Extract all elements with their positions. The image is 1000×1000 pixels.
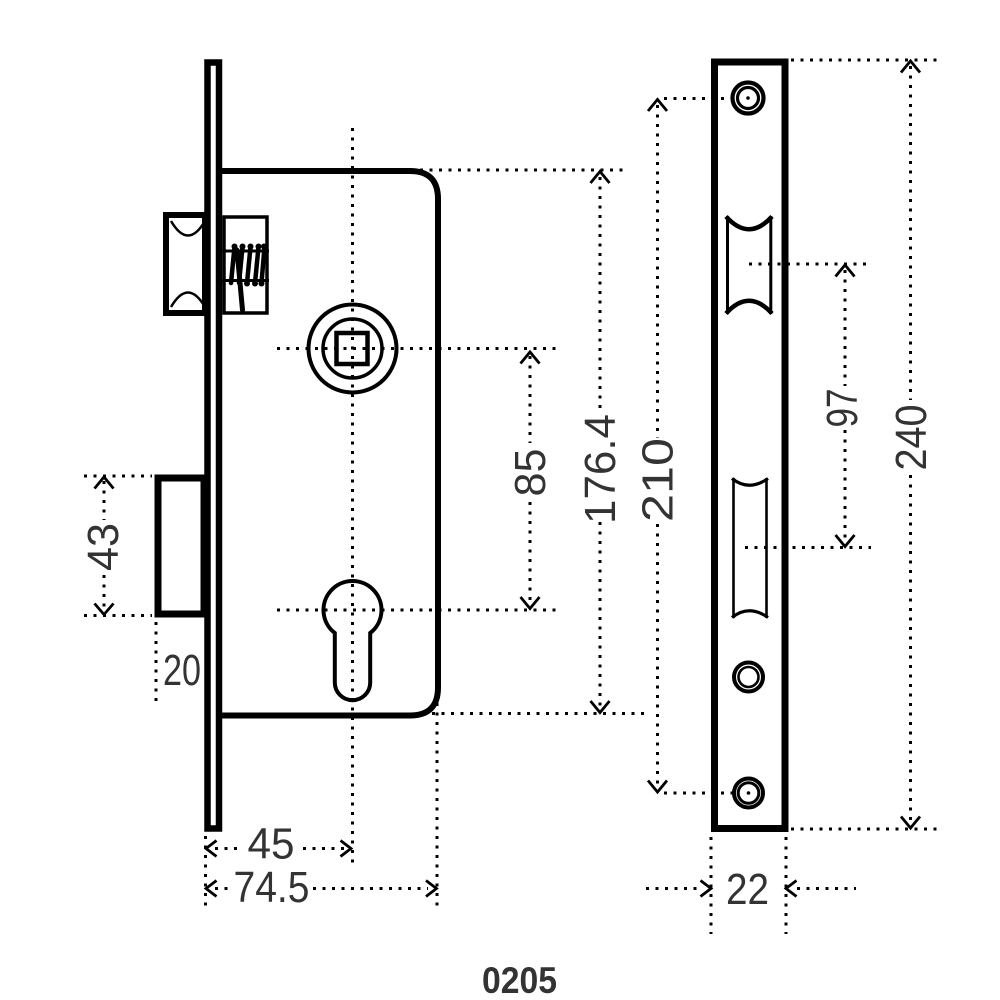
dim 176.4 arrow down [591, 701, 610, 713]
dim 85 arrow down [521, 597, 540, 609]
dim 240 top ext [791, 59, 937, 62]
latch bolt top arc [171, 221, 205, 236]
follower outer circle [309, 305, 397, 393]
spring knobs top [232, 244, 268, 287]
dim 240 line [909, 66, 912, 400]
dim 176.4 arrow up [591, 172, 610, 184]
svg-text:176.4: 176.4 [577, 414, 625, 524]
dim 240 bottom ext [791, 828, 937, 831]
dim 22 ext right [785, 837, 788, 934]
dim 74.5 line [215, 887, 231, 890]
dim 74.5 arrow right [426, 881, 437, 897]
dim 176.4 top ext [420, 169, 627, 172]
deadbolt (side view) [158, 478, 204, 614]
dim 97 arrow down [836, 535, 855, 547]
euro cylinder hole [324, 581, 382, 700]
dim 97 line [844, 270, 847, 386]
dim 210 top ext [664, 97, 729, 100]
dim 210 line [656, 105, 659, 438]
svg-text:43: 43 [80, 523, 128, 571]
dim 240 arrow down [901, 817, 920, 829]
svg-text:20: 20 [163, 647, 201, 695]
top screw hole [733, 83, 764, 114]
latch opening (front view) [726, 216, 729, 314]
dim 43 arrow down [95, 604, 114, 615]
dim 97 top ext [749, 263, 871, 266]
dim 176.4 line [599, 177, 602, 413]
dim 22 arrow pointing right [701, 881, 712, 897]
deadbolt opening (front view) [732, 478, 735, 618]
svg-text:0205: 0205 [482, 960, 557, 1000]
dim 97 bottom ext [745, 546, 871, 549]
dim 43 ext top [84, 475, 152, 478]
dim 85 arrow up [521, 352, 540, 364]
svg-text:210: 210 [635, 438, 683, 522]
dim 43 ext bottom [84, 614, 152, 617]
faceplate (side view) [208, 63, 220, 829]
spring leg [237, 250, 243, 310]
dim 43 arrow up [95, 477, 114, 489]
centerline cylinder horizontal [277, 609, 562, 612]
spring housing [224, 217, 267, 313]
dim 22 ext left [710, 837, 713, 934]
middle screw hole [734, 663, 763, 692]
dim 45 arrow left [206, 841, 217, 857]
svg-text:97: 97 [819, 389, 867, 428]
centerline follower horizontal [277, 347, 562, 350]
latch bolt bottom arc [171, 293, 205, 308]
dim 43 line [103, 481, 106, 520]
dim 74.5 arrow left [206, 881, 217, 897]
svg-text:45: 45 [248, 821, 295, 869]
spring housing mid line 2 [222, 279, 269, 282]
dim 45 arrow right [341, 841, 352, 857]
follower square [337, 333, 368, 364]
spring housing mid line 1 [222, 250, 269, 253]
svg-text:240: 240 [888, 405, 936, 471]
spring coil [231, 247, 265, 283]
dim 45 line [215, 847, 243, 850]
dim 97 arrow up [836, 265, 855, 277]
lock case outline [222, 171, 438, 716]
dim 22 arrow pointing left [786, 881, 797, 897]
svg-text:22: 22 [726, 866, 769, 914]
dim 85 line [529, 356, 532, 443]
dim 22 dots right [797, 887, 856, 890]
svg-text:74.5: 74.5 [234, 864, 310, 912]
follower inner circle [323, 319, 382, 378]
dim 20 ext [155, 622, 158, 703]
centerline vertical lock body [351, 128, 354, 866]
dim 22 dots left [646, 887, 700, 890]
latch bolt (side view) [166, 215, 205, 313]
dim 210 arrow down [648, 781, 667, 793]
svg-text:85: 85 [507, 449, 555, 497]
dim 210 arrow up [648, 100, 667, 112]
dim 240 arrow up [901, 61, 920, 73]
faceplate (front view) [715, 62, 786, 829]
dim 176.4 bottom ext [432, 712, 650, 715]
dim 210 bottom ext [664, 792, 737, 795]
bottom screw hole [734, 779, 763, 808]
dim ext case right [436, 703, 439, 912]
dim 45/74.5 ext faceplate [204, 836, 207, 912]
